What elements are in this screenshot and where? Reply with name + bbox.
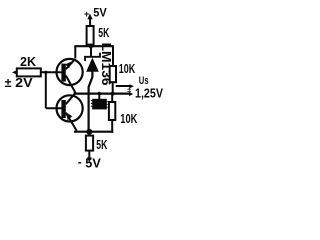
resistor 2K — [17, 68, 41, 76]
svg-text:5K: 5K — [98, 25, 109, 40]
junction dot output node — [111, 92, 115, 96]
-5V supply arrow — [88, 151, 90, 159]
svg-text:5V: 5V — [85, 157, 101, 171]
svg-text:2K: 2K — [20, 55, 36, 69]
upper output arrow — [116, 85, 130, 87]
zener diode LM136 anode triangle — [86, 58, 99, 72]
svg-text:10K: 10K — [119, 61, 136, 76]
output wire Us — [74, 92, 131, 94]
resistor 5K top — [87, 26, 94, 45]
input arrow — [12, 70, 18, 76]
svg-text:5K: 5K — [96, 138, 107, 152]
wire rail to T1 emitter — [74, 46, 76, 58]
wire rail corner to 10K upper — [112, 46, 114, 66]
resistor 10K lower — [111, 94, 113, 102]
svg-text:±: ± — [5, 76, 12, 90]
svg-text:1,25V: 1,25V — [135, 85, 163, 100]
junction node top — [89, 45, 93, 49]
resistor 10K upper — [110, 66, 116, 82]
+5V supply arrow — [89, 17, 91, 27]
transistor T1 — [57, 59, 83, 85]
svg-text:±: ± — [127, 85, 131, 94]
wire zener anode down — [89, 71, 93, 132]
junction dot bottom node — [86, 129, 92, 135]
top rail wire — [74, 45, 114, 47]
wire to T2 base — [46, 107, 62, 109]
trimmer stub wire — [98, 94, 100, 100]
svg-text:2V: 2V — [15, 75, 33, 90]
svg-text:5V: 5V — [93, 6, 107, 20]
wire rail to zener cathode — [90, 46, 92, 56]
base branch vertical wire — [45, 72, 47, 108]
resistor 5K bottom — [86, 136, 93, 151]
wire node to 5K bottom — [88, 132, 90, 136]
transistor T2 — [57, 95, 83, 121]
svg-text:+: + — [84, 9, 89, 19]
svg-text:10K: 10K — [120, 111, 137, 126]
svg-text:-: - — [78, 155, 82, 169]
wire 10K upper to output node — [112, 82, 114, 94]
bottom rail wire — [74, 131, 113, 133]
zener diode LM136 cathode bar — [85, 53, 100, 61]
wire 2K to bases — [41, 71, 62, 73]
wire 10K lower to bottom rail — [111, 120, 113, 133]
trimmer block — [92, 99, 107, 110]
